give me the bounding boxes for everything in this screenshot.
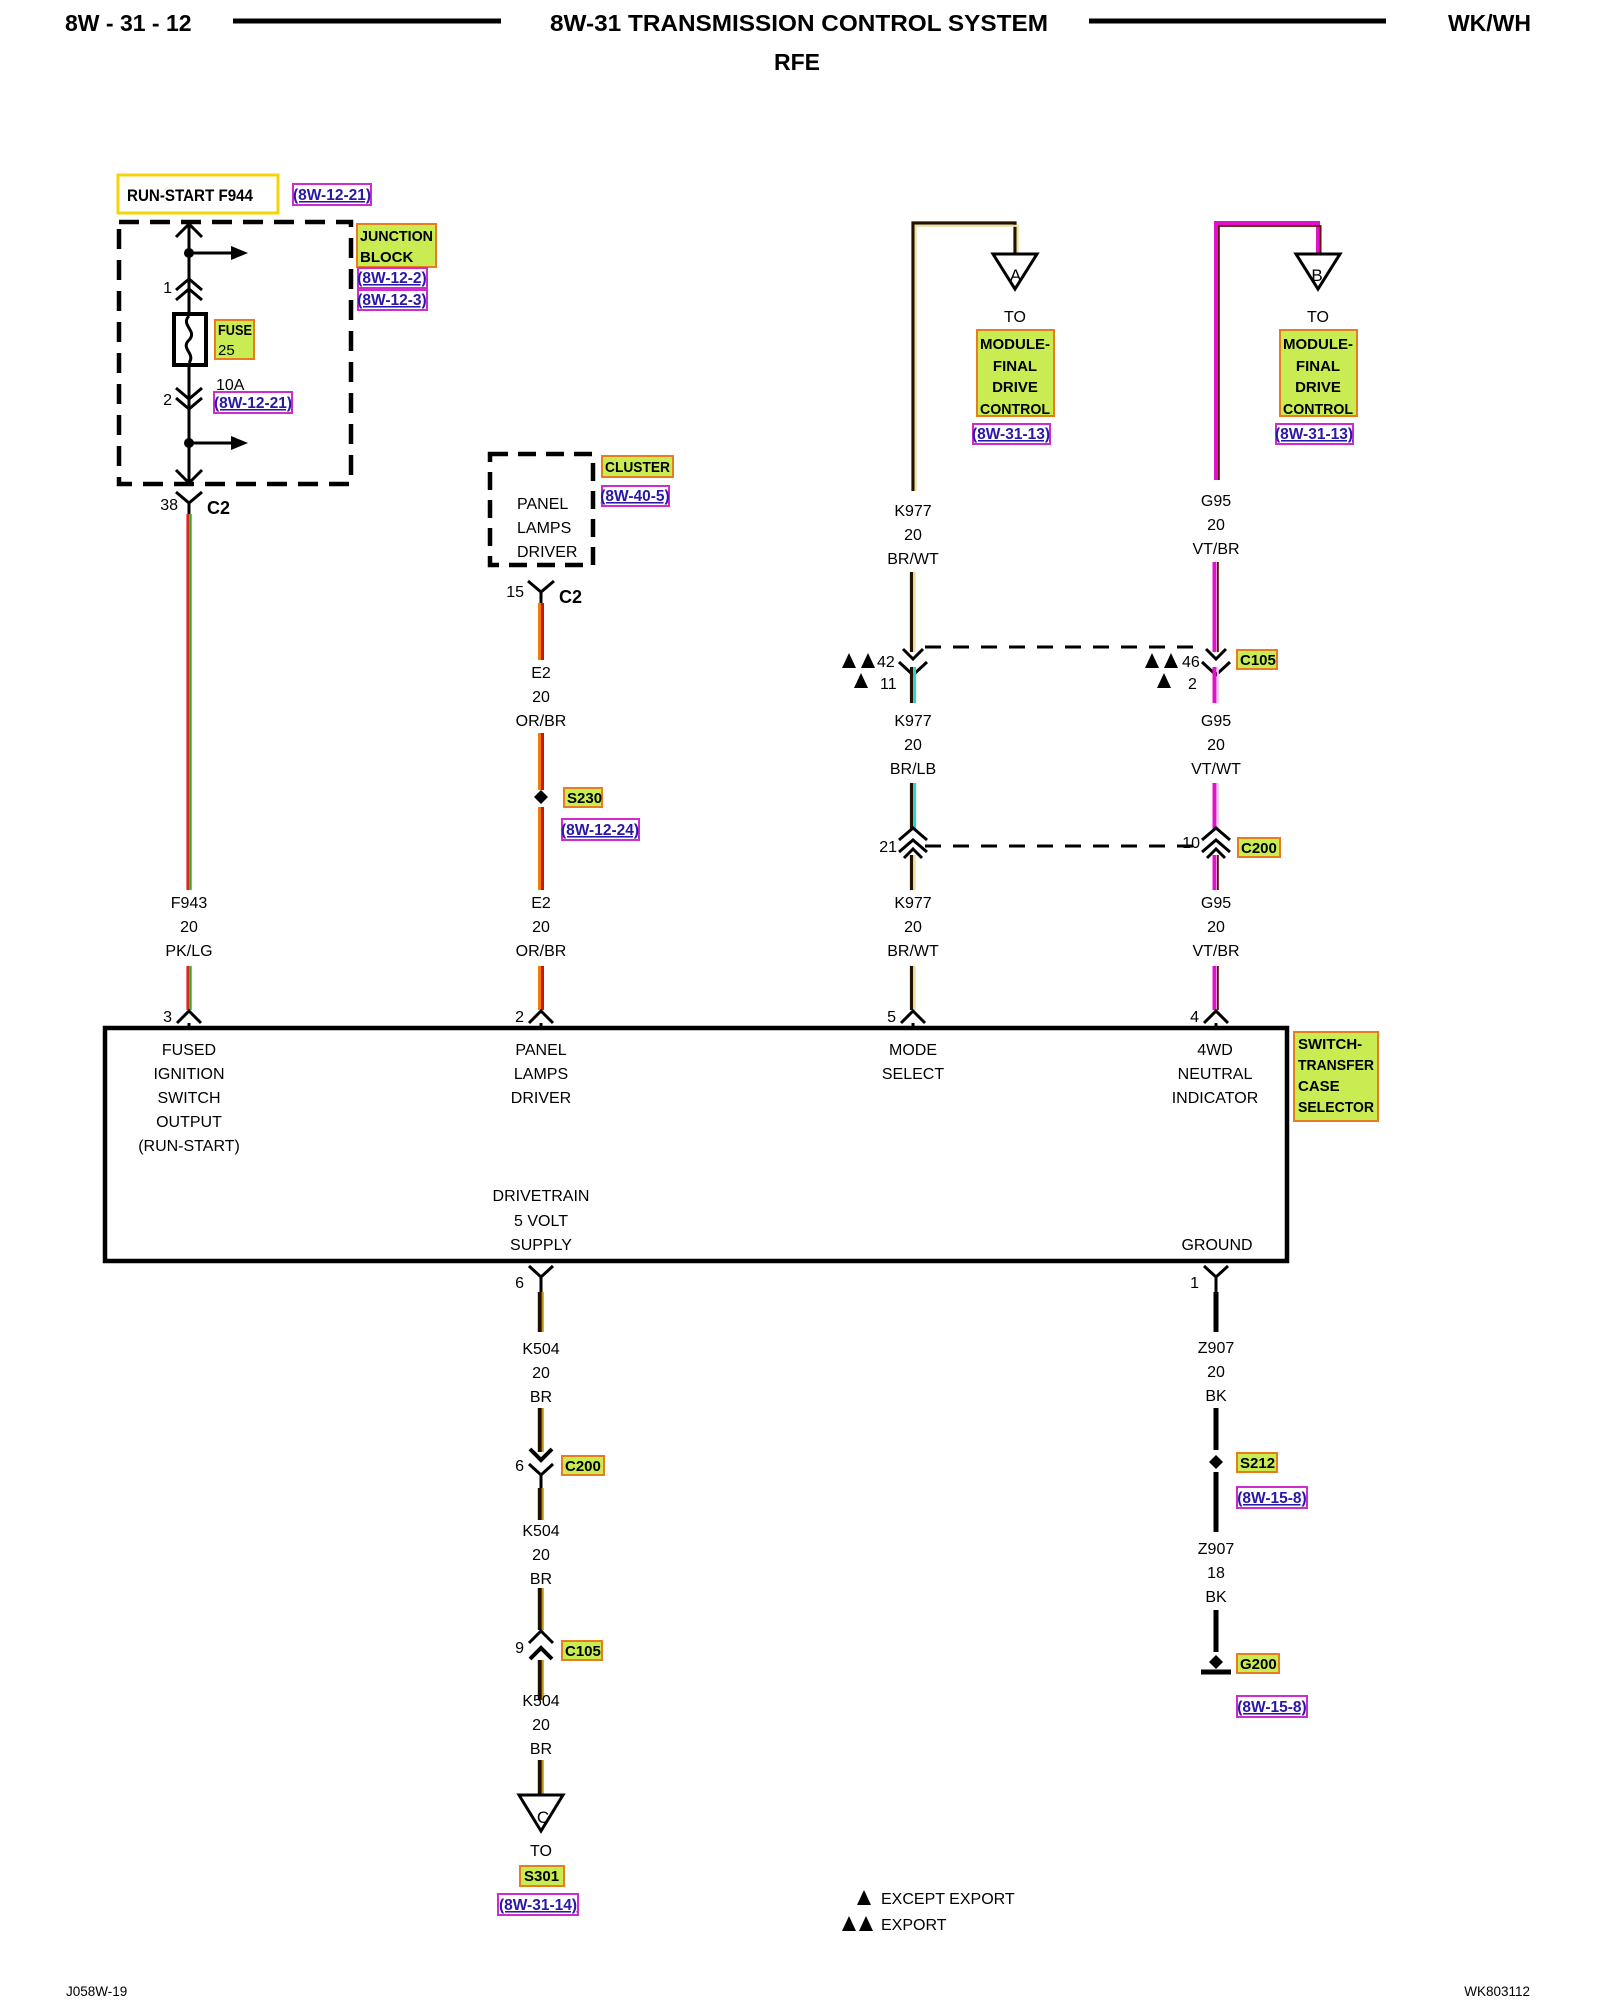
svg-text:S301: S301 <box>524 1868 559 1885</box>
link 8W-40-5 <box>600 486 669 506</box>
triangle connector C <box>519 1795 563 1831</box>
svg-text:BR/WT: BR/WT <box>887 943 939 960</box>
svg-text:NEUTRAL: NEUTRAL <box>1178 1066 1253 1083</box>
svg-text:FINAL: FINAL <box>1296 358 1340 375</box>
svg-text:3: 3 <box>163 1009 172 1026</box>
cluster dashed outline <box>490 454 593 565</box>
svg-text:SWITCH-: SWITCH- <box>1298 1036 1362 1053</box>
wire label E2 20 OR/BR lower <box>516 895 567 960</box>
svg-text:OR/BR: OR/BR <box>516 943 567 960</box>
svg-text:A: A <box>1010 266 1022 285</box>
svg-text:B: B <box>1311 266 1322 285</box>
svg-text:(8W-12-21): (8W-12-21) <box>293 187 371 204</box>
splice S301 label <box>520 1866 564 1886</box>
wire E2 segment 4 <box>540 966 543 1010</box>
svg-text:C2: C2 <box>559 587 582 607</box>
svg-text:EXCEPT EXPORT: EXCEPT EXPORT <box>881 1891 1015 1908</box>
svg-text:K977: K977 <box>894 895 931 912</box>
svg-text:C105: C105 <box>565 1643 601 1660</box>
header subtitle RFE <box>774 49 820 75</box>
header right code <box>1448 10 1531 36</box>
svg-text:10: 10 <box>1182 835 1200 852</box>
header right rule <box>1089 19 1386 24</box>
svg-text:(8W-12-2): (8W-12-2) <box>357 270 426 287</box>
pin 4 function label <box>1172 1042 1259 1107</box>
wire label K977 20 BR/WT upper <box>887 503 939 568</box>
destination label TO (A) <box>1004 309 1026 326</box>
svg-text:TO: TO <box>1307 309 1329 326</box>
svg-text:VT/WT: VT/WT <box>1191 761 1241 778</box>
wire label Z907 18 BK <box>1198 1541 1235 1606</box>
svg-text:(8W-31-13): (8W-31-13) <box>1275 426 1353 443</box>
footer left <box>66 1984 127 1999</box>
triangle connector B <box>1296 254 1340 289</box>
svg-text:IGNITION: IGNITION <box>153 1066 224 1083</box>
wire K977 BR/LB below C105 <box>912 667 915 703</box>
header left page number <box>65 10 192 36</box>
wire label K504 20 BR third <box>522 1693 559 1758</box>
svg-text:LAMPS: LAMPS <box>517 520 571 537</box>
svg-text:(RUN-START): (RUN-START) <box>138 1138 240 1155</box>
pin 6 function label <box>493 1188 590 1254</box>
connector C200 label lower <box>562 1456 604 1475</box>
pin 1 function label <box>1181 1237 1252 1254</box>
arrow down to connector C2 <box>176 470 202 483</box>
svg-text:C2: C2 <box>207 498 230 518</box>
svg-text:2: 2 <box>163 392 172 409</box>
svg-text:BK: BK <box>1205 1388 1227 1405</box>
wire K504 20 BR segment 1 <box>540 1292 543 1332</box>
svg-text:RUN-START F944: RUN-START F944 <box>127 186 253 205</box>
svg-text:FUSE: FUSE <box>218 322 252 339</box>
svg-text:9: 9 <box>515 1640 524 1657</box>
connector C200 label <box>1238 838 1280 857</box>
connector C105 pin 42 female <box>899 649 927 675</box>
wire label F943 20 PK/LG <box>165 895 212 960</box>
switch-transfer case selector label <box>1294 1032 1378 1121</box>
svg-text:4: 4 <box>1190 1009 1199 1026</box>
svg-text:PANEL: PANEL <box>515 1042 566 1059</box>
wire K977 BR/WT below C200 <box>912 855 915 890</box>
pin 3 function label <box>138 1042 240 1155</box>
svg-text:18: 18 <box>1207 1565 1225 1582</box>
wire K504 segment 2 with arrow <box>530 1408 552 1460</box>
link 8W-12-24 <box>561 819 639 840</box>
svg-text:20: 20 <box>532 1717 550 1734</box>
legend marker export <box>842 1916 947 1934</box>
svg-text:RFE: RFE <box>774 49 820 75</box>
svg-text:2: 2 <box>1188 676 1197 693</box>
wire G95 VT/BR below C200 <box>1215 855 1218 890</box>
svg-text:5 VOLT: 5 VOLT <box>514 1213 568 1230</box>
wire G95 VT/BR elbow to B <box>1216 223 1321 480</box>
svg-text:JUNCTION: JUNCTION <box>360 228 433 245</box>
footer right <box>1464 1984 1530 1999</box>
svg-text:E2: E2 <box>531 895 551 912</box>
connector pin 4 into module <box>1190 1009 1228 1028</box>
connector C200 pin 6 female <box>515 1458 553 1488</box>
node junction dot lower <box>184 438 194 448</box>
wire G95 segment to module <box>1215 966 1218 1010</box>
svg-text:8W - 31 - 12: 8W - 31 - 12 <box>65 10 192 36</box>
svg-text:C200: C200 <box>565 1458 601 1475</box>
svg-text:OR/BR: OR/BR <box>516 713 567 730</box>
svg-text:G95: G95 <box>1201 895 1231 912</box>
svg-text:TO: TO <box>530 1843 552 1860</box>
svg-text:G95: G95 <box>1201 493 1231 510</box>
svg-text:MODULE-: MODULE- <box>980 336 1050 353</box>
svg-text:SUPPLY: SUPPLY <box>510 1237 572 1254</box>
splice S212 <box>1209 1455 1223 1469</box>
connector pin 2 chevrons <box>163 388 202 409</box>
svg-text:TO: TO <box>1004 309 1026 326</box>
header title <box>550 10 1048 36</box>
connector pin 2 into module <box>515 1009 553 1028</box>
connector C105 pin 46 female <box>1202 649 1230 675</box>
wire K504 segment 5 <box>540 1660 543 1700</box>
wire label K977 20 BR/WT lower <box>887 895 939 960</box>
connector C2 pin 38 <box>160 492 230 518</box>
triangle connector A <box>993 254 1037 289</box>
wire label G95 20 VT/BR upper <box>1192 493 1239 558</box>
svg-text:C200: C200 <box>1241 840 1277 857</box>
svg-text:20: 20 <box>1207 737 1225 754</box>
svg-text:BR/LB: BR/LB <box>890 761 936 778</box>
svg-text:8W-31 TRANSMISSION CONTROL SYS: 8W-31 TRANSMISSION CONTROL SYSTEM <box>550 10 1048 36</box>
wire K977 BR/LB segment to C200 <box>912 783 915 830</box>
node junction dot upper <box>184 248 194 258</box>
svg-text:VT/BR: VT/BR <box>1192 943 1239 960</box>
svg-text:TRANSFER: TRANSFER <box>1298 1057 1374 1074</box>
wire K504 segment 6 <box>540 1760 543 1795</box>
svg-text:20: 20 <box>904 919 922 936</box>
svg-text:EXPORT: EXPORT <box>881 1917 947 1934</box>
legend marker except export <box>857 1890 1015 1908</box>
wire E2 segment 2 <box>540 733 543 790</box>
fuse 25 symbol <box>174 314 206 365</box>
svg-text:DRIVER: DRIVER <box>511 1090 571 1107</box>
wire K504 segment 4 <box>540 1588 543 1630</box>
svg-text:2: 2 <box>515 1009 524 1026</box>
header left rule <box>233 19 501 24</box>
wire K977 segment to C105 <box>912 572 915 652</box>
wire label Z907 20 BK <box>1198 1340 1235 1405</box>
wire label K504 20 BR first <box>522 1341 559 1406</box>
svg-text:20: 20 <box>532 919 550 936</box>
svg-text:DRIVETRAIN: DRIVETRAIN <box>493 1188 590 1205</box>
wire G95 VT/WT below C105 <box>1215 667 1218 703</box>
transfer case switch module box <box>105 1028 1287 1261</box>
ground G200 label <box>1237 1654 1279 1673</box>
wire label G95 20 VT/BR lower <box>1192 895 1239 960</box>
wire F943 lower segment <box>188 966 191 1010</box>
wire inside junction block <box>188 223 191 483</box>
svg-text:20: 20 <box>1207 919 1225 936</box>
svg-text:25: 25 <box>218 342 235 359</box>
svg-text:5: 5 <box>887 1009 896 1026</box>
svg-text:11: 11 <box>880 676 897 693</box>
cluster inner label PANEL LAMPS DRIVER <box>517 496 577 561</box>
svg-text:GROUND: GROUND <box>1181 1237 1252 1254</box>
link 8W-15-8 lower <box>1237 1696 1307 1717</box>
svg-text:1: 1 <box>163 280 172 297</box>
wire Z907 segment 3 <box>1214 1472 1219 1532</box>
svg-text:DRIVE: DRIVE <box>992 379 1038 396</box>
svg-text:Z907: Z907 <box>1198 1541 1235 1558</box>
svg-text:BR: BR <box>530 1741 552 1758</box>
connector pin 6 below module <box>515 1266 553 1292</box>
fuse rating 10A <box>216 377 245 394</box>
svg-text:S212: S212 <box>1240 1455 1275 1472</box>
svg-text:(8W-12-24): (8W-12-24) <box>561 822 639 839</box>
svg-text:20: 20 <box>904 737 922 754</box>
link 8W-12-3 <box>357 290 427 310</box>
svg-text:S230: S230 <box>567 790 602 807</box>
svg-text:20: 20 <box>532 689 550 706</box>
link 8W-31-14 <box>498 1894 578 1915</box>
link 8W-31-13 (A) <box>972 424 1050 444</box>
wire E2 20 OR/BR segment 1 <box>540 603 543 660</box>
svg-text:CONTROL: CONTROL <box>980 401 1050 418</box>
svg-text:BLOCK: BLOCK <box>360 249 413 266</box>
connector C105 pin 9 male <box>515 1631 553 1659</box>
svg-text:FINAL: FINAL <box>993 358 1037 375</box>
svg-text:(8W-15-8): (8W-15-8) <box>1237 1490 1306 1507</box>
svg-text:OUTPUT: OUTPUT <box>156 1114 222 1131</box>
splice S230 label <box>564 788 602 807</box>
svg-text:LAMPS: LAMPS <box>514 1066 568 1083</box>
svg-text:K504: K504 <box>522 1341 559 1358</box>
svg-text:20: 20 <box>532 1547 550 1564</box>
pin 5 function label <box>882 1042 944 1083</box>
connector C105 label <box>1237 650 1277 669</box>
svg-text:MODE: MODE <box>889 1042 937 1059</box>
junction block label <box>357 224 436 267</box>
svg-text:C105: C105 <box>1240 652 1276 669</box>
svg-text:CONTROL: CONTROL <box>1283 401 1353 418</box>
svg-text:SELECT: SELECT <box>882 1066 944 1083</box>
svg-text:G200: G200 <box>1240 1656 1277 1673</box>
wire label K977 20 BR/LB <box>890 713 936 778</box>
fuse 25 label <box>215 320 254 359</box>
svg-text:38: 38 <box>160 497 178 514</box>
splice S212 label <box>1237 1453 1277 1472</box>
svg-text:WK803112: WK803112 <box>1464 1984 1530 1999</box>
svg-text:BR/WT: BR/WT <box>887 551 939 568</box>
splice S230 <box>534 790 548 804</box>
svg-text:20: 20 <box>180 919 198 936</box>
wire Z907 segment 4 <box>1214 1610 1219 1652</box>
svg-text:C: C <box>537 1808 549 1827</box>
svg-text:DRIVER: DRIVER <box>517 544 577 561</box>
svg-text:6: 6 <box>515 1458 524 1475</box>
module-final drive control label (A) <box>977 330 1054 418</box>
wire K504 segment 3 <box>540 1488 543 1520</box>
module-final drive control label (B) <box>1280 330 1357 418</box>
wire Z907 20 BK segment 1 <box>1214 1292 1219 1332</box>
wire Z907 segment 2 <box>1214 1408 1219 1450</box>
export markers pin 42 <box>842 653 897 693</box>
svg-text:CASE: CASE <box>1298 1078 1340 1095</box>
svg-text:15: 15 <box>506 584 524 601</box>
fuse block label RUN-START F944 <box>118 175 278 213</box>
pin 2 function label <box>511 1042 571 1107</box>
svg-text:INDICATOR: INDICATOR <box>1172 1090 1259 1107</box>
connector pin 5 into module <box>887 1009 925 1028</box>
dashed connector line C200 <box>925 845 1204 848</box>
svg-text:K504: K504 <box>522 1693 559 1710</box>
connector pin 3 into module <box>163 1009 201 1028</box>
svg-text:Z907: Z907 <box>1198 1340 1235 1357</box>
svg-text:J058W-19: J058W-19 <box>66 1984 127 1999</box>
branch arrow right lower <box>189 436 248 450</box>
svg-text:(8W-40-5): (8W-40-5) <box>600 488 669 505</box>
link 8W-12-2 <box>357 268 427 288</box>
svg-text:4WD: 4WD <box>1197 1042 1233 1059</box>
svg-text:K977: K977 <box>894 713 931 730</box>
link 8W-15-8 upper <box>1237 1487 1307 1508</box>
connector pin 1 chevrons <box>163 279 202 300</box>
wire label K504 20 BR second <box>522 1523 559 1588</box>
wire E2 segment 3 <box>540 807 543 890</box>
svg-text:(8W-15-8): (8W-15-8) <box>1237 1699 1306 1716</box>
svg-text:BR: BR <box>530 1389 552 1406</box>
svg-text:SELECTOR: SELECTOR <box>1298 1099 1374 1116</box>
destination label TO (C) <box>530 1843 552 1860</box>
wire G95 segment to C105 <box>1215 562 1218 652</box>
svg-text:FUSED: FUSED <box>162 1042 216 1059</box>
svg-text:42: 42 <box>877 654 895 671</box>
wire G95 VT/WT segment to C200 <box>1215 783 1218 830</box>
svg-text:BR: BR <box>530 1571 552 1588</box>
connector pin 1 below module <box>1190 1266 1228 1292</box>
wire K977 BR/WT elbow to A <box>913 223 1018 491</box>
svg-text:(8W-12-21): (8W-12-21) <box>214 395 292 412</box>
svg-text:20: 20 <box>1207 1364 1225 1381</box>
svg-text:20: 20 <box>1207 517 1225 534</box>
svg-text:1: 1 <box>1190 1275 1199 1292</box>
connector C105 label lower <box>562 1641 602 1660</box>
svg-text:K504: K504 <box>522 1523 559 1540</box>
wire F943 20 PK/LG upper segment <box>188 514 191 890</box>
svg-text:PANEL: PANEL <box>517 496 568 513</box>
svg-text:20: 20 <box>532 1365 550 1382</box>
connector C200 pin 10 male <box>1182 828 1230 858</box>
svg-text:DRIVE: DRIVE <box>1295 379 1341 396</box>
cluster label <box>602 456 673 477</box>
ground G200 <box>1201 1655 1231 1672</box>
svg-text:20: 20 <box>904 527 922 544</box>
svg-text:46: 46 <box>1182 654 1200 671</box>
dashed connector line C105 <box>925 646 1204 649</box>
arrow up to fuse feed <box>176 224 202 237</box>
destination label TO (B) <box>1307 309 1329 326</box>
svg-text:E2: E2 <box>531 665 551 682</box>
svg-text:BK: BK <box>1205 1589 1227 1606</box>
wire K977 segment to module <box>912 966 915 1010</box>
wire label E2 20 OR/BR upper <box>516 665 567 730</box>
svg-text:WK/WH: WK/WH <box>1448 10 1531 36</box>
svg-text:(8W-12-3): (8W-12-3) <box>357 292 426 309</box>
wire label G95 20 VT/WT <box>1191 713 1241 778</box>
link 8W-12-21 top <box>293 184 371 205</box>
link 8W-12-21 lower <box>214 392 292 413</box>
svg-text:21: 21 <box>879 839 897 856</box>
svg-text:F943: F943 <box>171 895 208 912</box>
svg-text:CLUSTER: CLUSTER <box>605 459 670 476</box>
connector C2 pin 15 <box>506 581 582 607</box>
junction block dashed outline <box>119 222 351 484</box>
svg-text:6: 6 <box>515 1275 524 1292</box>
link 8W-31-13 (B) <box>1275 424 1353 444</box>
branch arrow right upper <box>189 246 248 260</box>
connector C200 pin 21 male <box>879 828 927 858</box>
svg-text:K977: K977 <box>894 503 931 520</box>
svg-text:G95: G95 <box>1201 713 1231 730</box>
svg-text:PK/LG: PK/LG <box>165 943 212 960</box>
svg-text:VT/BR: VT/BR <box>1192 541 1239 558</box>
svg-text:SWITCH: SWITCH <box>157 1090 220 1107</box>
svg-text:(8W-31-14): (8W-31-14) <box>499 1897 577 1914</box>
svg-text:MODULE-: MODULE- <box>1283 336 1353 353</box>
export markers pin 46 <box>1145 653 1200 693</box>
svg-text:(8W-31-13): (8W-31-13) <box>972 426 1050 443</box>
